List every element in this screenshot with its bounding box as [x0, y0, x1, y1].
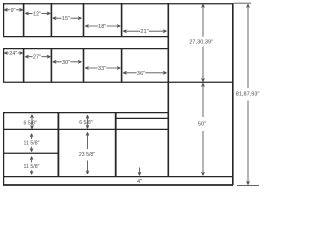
svg-text:18": 18" — [98, 24, 106, 30]
svg-text:12": 12" — [33, 11, 41, 17]
svg-text:30": 30" — [62, 60, 70, 66]
svg-text:36": 36" — [137, 71, 145, 77]
svg-text:11 5/8": 11 5/8" — [24, 140, 40, 146]
svg-text:27": 27" — [33, 55, 41, 61]
svg-text:6 5/8": 6 5/8" — [79, 120, 93, 126]
svg-text:27,30,39": 27,30,39" — [189, 39, 213, 45]
svg-text:4": 4" — [137, 179, 142, 185]
svg-text:81,87,93": 81,87,93" — [236, 92, 260, 98]
svg-text:21": 21" — [140, 29, 148, 35]
svg-text:6 5/8": 6 5/8" — [24, 120, 38, 126]
svg-text:11 5/8": 11 5/8" — [24, 164, 40, 170]
svg-text:23 5/8": 23 5/8" — [79, 152, 95, 158]
svg-text:33": 33" — [98, 66, 106, 72]
svg-text:24": 24" — [9, 51, 17, 57]
svg-text:9": 9" — [10, 8, 15, 14]
svg-text:50": 50" — [198, 122, 206, 128]
svg-text:15": 15" — [62, 16, 70, 22]
